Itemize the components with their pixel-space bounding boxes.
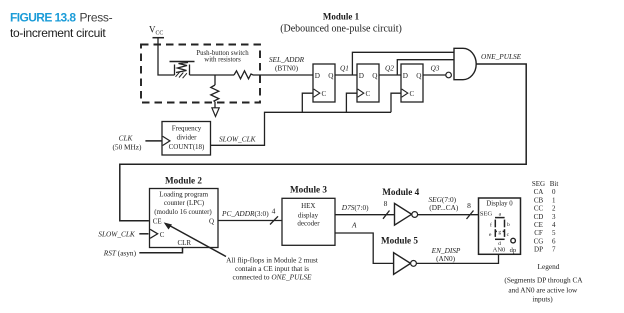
svg-text:Q: Q [416,72,422,80]
svg-text:Q: Q [328,72,334,80]
svg-text:CB: CB [534,196,544,204]
wire clock riser FF3 [391,93,401,112]
svg-text:connected to ONE_PULSE: connected to ONE_PULSE [232,273,312,282]
resistor (series, horizontal) [234,71,253,79]
bus slash SEG [467,211,474,220]
frequency divider box [162,122,211,156]
svg-text:2: 2 [552,205,556,213]
svg-text:Module 4: Module 4 [382,187,419,197]
AND gate U1 [454,48,476,79]
wire Vcc to switch [158,38,175,75]
flip-flop FF1 [313,64,335,102]
svg-text:COUNT(18): COUNT(18) [169,143,205,151]
svg-text:Module 3: Module 3 [290,184,327,194]
wire CLK arrow [145,140,162,142]
svg-text:A: A [351,221,357,230]
svg-text:DP: DP [534,246,543,254]
svg-text:PC_ADDR(3:0): PC_ADDR(3:0) [221,209,269,218]
svg-text:counter (LPC): counter (LPC) [164,199,205,207]
svg-text:C: C [322,90,327,98]
power Vcc bar [153,37,165,39]
svg-text:(BTN0): (BTN0) [275,64,299,73]
svg-text:with resistors: with resistors [204,57,241,64]
svg-text:f: f [490,222,492,229]
svg-text:6: 6 [552,237,556,245]
ground (open arrow) [212,108,219,117]
wire PC_ADDR bus [218,220,282,222]
svg-text:RST (asyn): RST (asyn) [103,248,137,257]
svg-text:8: 8 [467,201,471,210]
wire SLOW_CLK to clock bus [211,112,392,145]
svg-text:D: D [315,72,320,80]
svg-text:Legend: Legend [538,262,560,271]
svg-text:(Debounced one-pulse circuit): (Debounced one-pulse circuit) [280,24,402,35]
annotation arrow to CE [167,224,227,257]
svg-text:D: D [403,72,408,80]
svg-text:Module 5: Module 5 [381,235,418,245]
svg-text:C: C [410,90,415,98]
Display 0 box [479,198,521,254]
svg-text:SLOW_CLK: SLOW_CLK [219,134,257,143]
svg-text:5: 5 [552,229,556,237]
seven-segment digit [495,218,505,240]
svg-text:1: 1 [552,196,556,204]
flip-flop FF3 [401,64,423,102]
svg-text:CF: CF [534,229,543,237]
svg-text:SEG: SEG [480,211,493,218]
svg-text:D7S(7:0): D7S(7:0) [341,203,369,212]
svg-text:divider: divider [177,133,197,141]
svg-text:(50 MHz): (50 MHz) [113,143,143,152]
svg-text:Q: Q [372,72,378,80]
inverter U3 (Module 5) [394,253,411,275]
svg-text:CLK: CLK [119,133,134,142]
svg-text:8: 8 [384,199,388,208]
svg-text:SEG: SEG [532,180,545,188]
svg-text:contain a CE input that is: contain a CE input that is [235,264,309,273]
svg-text:FIGURE 13.8Press-: FIGURE 13.8Press- [10,11,113,25]
svg-text:CG: CG [534,237,544,245]
inverting bubble on AND input [446,72,452,78]
wire switch to resistor [190,74,235,76]
svg-text:Q2: Q2 [385,64,394,73]
svg-text:Loading program: Loading program [159,190,208,198]
svg-text:(DP...CA): (DP...CA) [429,203,459,212]
dashed box (debounce switch block) [141,45,260,103]
svg-text:Module 1: Module 1 [323,12,360,22]
svg-text:inputs): inputs) [532,294,553,303]
svg-text:and AN0 are active low: and AN0 are active low [508,285,578,294]
wire ONE_PULSE to Module 2 CE [120,64,526,221]
svg-text:CE: CE [534,221,543,229]
wire D7S bus [335,214,395,216]
svg-text:to-increment circuit: to-increment circuit [10,26,106,40]
svg-text:All flip-flops in Module 2 mus: All flip-flops in Module 2 must [226,255,318,264]
svg-text:7: 7 [552,246,556,254]
svg-text:C: C [366,90,371,98]
seven-segment letters [489,212,510,248]
svg-text:ONE_PULSE: ONE_PULSE [481,52,522,61]
svg-text:b: b [507,222,510,228]
svg-text:Display 0: Display 0 [486,201,513,208]
inverter U2 (Module 4) [395,203,412,225]
svg-text:CD: CD [534,213,544,221]
svg-text:C: C [160,231,165,239]
legend table [532,180,558,254]
svg-text:Q1: Q1 [340,64,349,73]
svg-text:D: D [359,72,364,80]
svg-text:Q: Q [209,218,214,226]
svg-text:4: 4 [552,221,556,229]
figure caption [10,11,113,41]
svg-text:3: 3 [552,213,556,221]
svg-text:0: 0 [552,188,556,196]
svg-text:d: d [498,241,501,247]
wire Q2 (FF2.Q to FF3.D and AND gate) [379,60,454,75]
bus slash PC_ADDR [270,216,278,224]
wire clock riser FF2 [346,93,357,112]
svg-text:(AN0): (AN0) [436,254,456,263]
wire A (Module3 to Module5) [335,233,394,263]
svg-text:Module 2: Module 2 [165,175,202,185]
wire Q3 (FF3.Q to AND bubble) [423,74,446,76]
bus slash D7S [383,211,390,219]
push-button switch [170,62,195,79]
svg-text:CA: CA [534,188,544,196]
flip-flop FF2 [357,64,379,102]
svg-text:VCC: VCC [149,25,163,37]
svg-text:Frequency: Frequency [172,125,202,133]
wire junction to pull-down resistor [214,75,216,85]
svg-text:4: 4 [272,207,276,216]
wire resistor to ground [214,102,216,108]
svg-text:CE: CE [153,217,162,225]
wire SLOW_CLK stub [139,233,148,235]
svg-text:display: display [298,212,319,220]
svg-text:Q3: Q3 [431,64,440,73]
svg-text:decoder: decoder [297,220,320,228]
svg-text:SLOW_CLK: SLOW_CLK [98,230,136,239]
wire clock riser FF1 [302,93,313,112]
dp indicator [511,238,516,243]
svg-text:CC: CC [534,205,544,213]
Module 3 box (HEX display decoder) [282,198,335,245]
svg-text:(modulo 16 counter): (modulo 16 counter) [154,208,212,216]
svg-text:g: g [498,230,501,236]
wire SEG bus [418,214,479,216]
svg-text:(Segments DP through CA: (Segments DP through CA [504,275,583,284]
Module 2 box (loading program counter) [150,189,219,248]
svg-text:AN0: AN0 [493,246,506,253]
wire SEL_ADDR to FF1 D [253,74,313,76]
wire EN_DISP [416,254,498,263]
resistor (pull-down, vertical) [211,85,219,102]
svg-text:Bit: Bit [550,180,559,188]
svg-text:dp: dp [510,247,517,254]
svg-text:HEX: HEX [301,202,315,210]
svg-text:CLR: CLR [177,239,191,247]
wire Q1 (FF1.Q to FF2.D and AND gate) [335,52,454,75]
wire RST to CLR [139,248,182,253]
